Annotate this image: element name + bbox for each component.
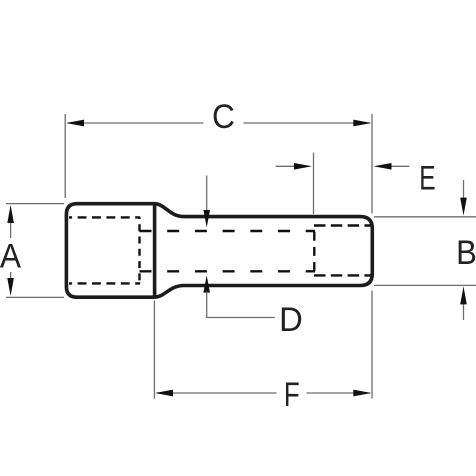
svg-text:A: A	[0, 237, 22, 276]
hidden line: barrel bore top	[140, 230, 316, 232]
dimension D top leader (pointing down at bore)	[206, 176, 208, 213]
dimension A upper arrowhead	[7, 205, 14, 223]
dimension F left arrowhead	[155, 390, 173, 397]
extension line: C left	[64, 114, 66, 198]
extension line: A bottom	[6, 296, 64, 298]
head right face edge	[153, 203, 157, 299]
extension line: C/E/F right upper	[371, 114, 373, 214]
dimension F right arrowhead	[353, 390, 371, 397]
dimension E right arrow (outside, pointing left)	[392, 165, 410, 167]
hidden line: end cavity top	[314, 224, 371, 226]
extension line: E left (end-cavity depth)	[313, 153, 315, 215]
svg-text:D: D	[279, 301, 303, 339]
dimension A lower arrowhead	[7, 278, 14, 296]
hidden line: barrel bore bottom	[140, 270, 316, 272]
svg-text:C: C	[212, 98, 235, 137]
svg-text:E: E	[419, 159, 435, 197]
dimension A line lower segment	[10, 272, 12, 280]
dimension C line	[68, 122, 370, 124]
hidden line: end cavity left wall	[313, 226, 315, 276]
dimension E left arrow (outside, pointing right)	[276, 165, 296, 167]
hidden line: end cavity bottom	[314, 274, 371, 276]
hidden line: head cavity top	[69, 216, 140, 218]
extension line: B top (barrel top produced)	[374, 216, 476, 218]
hidden line: head cavity bottom	[69, 282, 140, 284]
hidden line: head cavity end wall	[138, 217, 140, 283]
part outline: butt-splice terminal body silhouette	[66, 204, 372, 298]
extension line: F right lower	[371, 291, 373, 399]
extension line: F left (barrel junction)	[153, 301, 155, 399]
dimension D bottom leader (pointing up at bore)	[203, 275, 210, 292]
dimension B bottom arrow (outside, pointing up)	[463, 303, 465, 320]
dimension C left arrowhead	[66, 120, 84, 127]
svg-text:B: B	[456, 233, 476, 272]
extension line: A top	[6, 203, 64, 205]
dimension A line upper segment	[10, 221, 12, 238]
dimension C right arrowhead	[353, 120, 371, 127]
extension line: B bottom (barrel bottom produced)	[374, 284, 476, 286]
svg-text:F: F	[284, 375, 300, 413]
dimension F line	[157, 392, 370, 394]
dimension B top arrow (outside, pointing down)	[463, 180, 465, 199]
